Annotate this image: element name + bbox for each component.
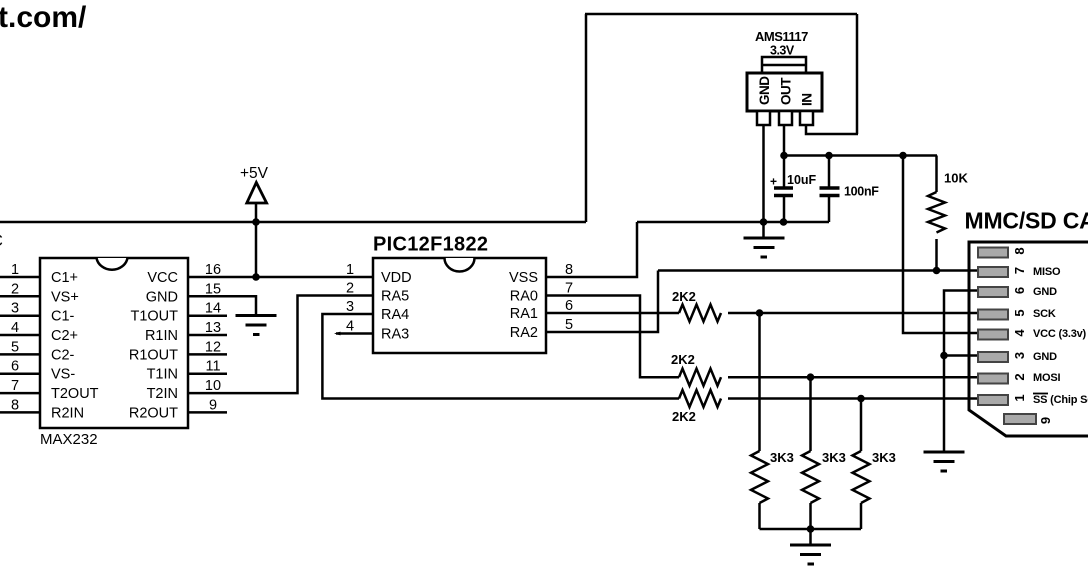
svg-text:GND: GND: [146, 289, 178, 305]
MAX232 left pin numbers: [11, 262, 19, 413]
svg-text:T2IN: T2IN: [147, 386, 178, 402]
wire MAX232 pin 7: [0, 392, 40, 395]
wire SD GND pins riser: [944, 291, 978, 453]
svg-text:13: 13: [205, 320, 221, 336]
svg-text:1: 1: [11, 262, 19, 278]
AMS1117 pin boxes: [757, 111, 770, 125]
junction dot MISO/10K: [933, 267, 941, 275]
junction dot VDD line: [252, 273, 260, 281]
svg-text:MAX232: MAX232: [40, 431, 98, 448]
wire riser left of AMS loop: [585, 14, 588, 222]
svg-text:IN: IN: [800, 94, 815, 107]
svg-text:MOSI: MOSI: [1033, 372, 1060, 384]
svg-text:C2-: C2-: [51, 347, 75, 363]
junction dot gnd rail AMS: [760, 218, 768, 226]
PIC right pin numbers: [565, 262, 573, 333]
svg-text:GND: GND: [1033, 286, 1057, 298]
svg-text:SS (Chip Select): SS (Chip Select): [1033, 394, 1088, 406]
svg-text:VCC: VCC: [147, 270, 178, 286]
svg-text:2: 2: [11, 281, 19, 297]
svg-text:RA1: RA1: [510, 306, 538, 322]
wire MAX232 pin 1: [0, 276, 40, 279]
svg-text:VSS: VSS: [509, 270, 538, 286]
svg-text:OUT: OUT: [779, 77, 794, 105]
svg-text:RA2: RA2: [510, 325, 538, 341]
svg-text:3K3: 3K3: [872, 450, 896, 465]
ground symbol at MAX232 GND: [236, 316, 277, 335]
PIC RA0 pin7 wire to MOSI net: [546, 296, 679, 378]
svg-text:10uF: 10uF: [787, 173, 817, 187]
svg-text:AMS1117: AMS1117: [755, 29, 808, 44]
MAX232 U1 body: [40, 258, 188, 428]
svg-text:VS-: VS-: [51, 367, 75, 383]
svg-text:3: 3: [11, 301, 19, 317]
SD pin boxes: [978, 248, 1036, 425]
wire MAX232 pin 5: [0, 353, 40, 356]
svg-text:14: 14: [205, 301, 221, 317]
wire MAX232 pin 12 stub: [188, 353, 227, 356]
svg-text:6: 6: [565, 298, 573, 314]
svg-text:3.3V: 3.3V: [770, 44, 795, 58]
+5V rail wire: [0, 221, 586, 224]
svg-text:C1+: C1+: [51, 270, 78, 286]
resistor R6 3K3: [860, 399, 863, 452]
wire joining 3K3 bottoms: [760, 528, 862, 531]
svg-text:1: 1: [346, 262, 354, 278]
svg-text:2K2: 2K2: [672, 289, 696, 304]
svg-text:3: 3: [1012, 352, 1027, 359]
svg-text:8: 8: [1012, 247, 1027, 254]
svg-text:PIC12F1822: PIC12F1822: [373, 234, 488, 256]
svg-text:RA0: RA0: [510, 289, 538, 305]
wire MAX232 pin 6: [0, 372, 40, 375]
SD connector outline: [969, 242, 1088, 436]
svg-text:7: 7: [565, 281, 573, 297]
junction dot SS/3K3: [857, 395, 865, 403]
ground symbol SD: [924, 452, 965, 471]
wire MAX232 pin 2: [0, 295, 40, 298]
svg-text:5: 5: [565, 317, 573, 333]
svg-text:MMC/SD CARD: MMC/SD CARD: [965, 208, 1088, 234]
svg-text:8: 8: [11, 397, 19, 413]
svg-text:3K3: 3K3: [770, 450, 794, 465]
svg-text:11: 11: [205, 359, 220, 375]
wire AMS GND pin to ground rail: [762, 125, 765, 222]
svg-text:10: 10: [205, 378, 221, 394]
PIC left pin labels: [381, 270, 412, 343]
svg-text:15: 15: [205, 281, 221, 297]
PIC RA3 pin4 stub: [336, 332, 373, 335]
svg-text:2: 2: [346, 281, 354, 297]
svg-text:T2OUT: T2OUT: [51, 386, 99, 402]
junction dot VCC3.3 riser: [899, 152, 907, 160]
wire GND pin15 to ground: [188, 296, 256, 315]
AMS1117 tab: [762, 57, 806, 73]
svg-text:SCK: SCK: [1033, 308, 1056, 320]
junction dot +5V rail: [252, 218, 260, 226]
junction dot gnd rail 10uF: [780, 218, 788, 226]
svg-text:3: 3: [346, 299, 354, 315]
ground symbol bottom: [790, 545, 831, 564]
ground rail right: [637, 221, 829, 224]
wire MAX232 pin 13 stub: [188, 334, 227, 337]
svg-text:T1IN: T1IN: [147, 367, 178, 383]
svg-text:+5V: +5V: [240, 165, 269, 182]
svg-text:6: 6: [11, 359, 19, 375]
svg-text:16: 16: [205, 262, 221, 278]
MAX232 right pin labels: [129, 270, 178, 421]
svg-text:4: 4: [1012, 329, 1027, 337]
wire MAX232 pin 9 stub: [188, 411, 227, 414]
svg-text:7: 7: [1012, 267, 1027, 274]
wire VCC pin16 to PIC VDD: [188, 276, 373, 279]
svg-text:4: 4: [11, 320, 19, 336]
SCK net wire: [728, 312, 978, 315]
resistor R5 3K3: [809, 377, 812, 451]
svg-text:RA5: RA5: [381, 289, 409, 305]
junction dot 3K3 bottoms: [807, 525, 815, 533]
svg-text:R2OUT: R2OUT: [129, 405, 178, 421]
wire AMS OUT pin to 3.3V node: [783, 125, 786, 156]
ground symbol below AMS: [762, 222, 765, 238]
svg-text:T1OUT: T1OUT: [130, 309, 178, 325]
MAX232 right pin numbers: [205, 262, 221, 413]
svg-text:RA4: RA4: [381, 307, 409, 323]
svg-text:9: 9: [209, 397, 217, 413]
svg-text:5: 5: [1012, 309, 1027, 316]
svg-text:C1-: C1-: [51, 309, 75, 325]
svg-text:t.com/: t.com/: [0, 1, 87, 34]
svg-text:100nF: 100nF: [844, 185, 879, 199]
junction dot OUT/10uF: [780, 152, 788, 160]
SD pin labels: [1033, 266, 1088, 406]
svg-text:+: +: [770, 175, 777, 189]
MOSI net wire: [728, 376, 978, 379]
svg-text:2K2: 2K2: [672, 409, 696, 424]
svg-text:5: 5: [11, 339, 19, 355]
svg-text:12: 12: [205, 339, 221, 355]
svg-text:3K3: 3K3: [822, 450, 846, 465]
MAX232 left pin labels: [51, 270, 99, 421]
capacitor C1 10uF: [783, 156, 786, 187]
svg-text:RA3: RA3: [381, 327, 409, 343]
svg-text:6: 6: [1012, 287, 1027, 294]
wire MAX232 pin 8: [0, 411, 40, 414]
PIC RA2 pin5 wire to MISO riser: [546, 271, 658, 333]
junction dot SD gnd: [940, 352, 948, 360]
svg-text:MISO: MISO: [1033, 266, 1061, 278]
svg-text:2K2: 2K2: [671, 352, 695, 367]
svg-text:C: C: [0, 232, 3, 250]
svg-text:10K: 10K: [944, 171, 968, 186]
junction dot 100nF top: [825, 152, 833, 160]
wire to SD pin3: [944, 354, 978, 357]
SS overline: [1033, 393, 1048, 395]
wire right drop of AMS loop: [856, 14, 859, 134]
resistor R4 3K3: [758, 313, 761, 451]
resistor R3 2K2 (SS): [679, 390, 721, 407]
PIC right pin labels: [509, 270, 538, 341]
svg-text:R1OUT: R1OUT: [129, 347, 178, 363]
resistor R1 2K2 (SCK): [679, 305, 721, 322]
svg-text:GND: GND: [1033, 351, 1057, 363]
wire MAX232 pin 11 stub: [188, 372, 227, 375]
svg-text:8: 8: [565, 262, 573, 278]
PIC left pin numbers: [346, 262, 354, 335]
AMS1117 pin names rotated: [757, 76, 815, 106]
3.3V node wire: [784, 154, 937, 157]
MISO net wire: [658, 269, 978, 272]
svg-text:1: 1: [1012, 394, 1027, 401]
junction dot MOSI/3K3: [807, 373, 815, 381]
resistor R7 10K: [935, 156, 938, 193]
resistor R2 2K2 (MOSI): [679, 369, 721, 386]
wire top of AMS loop: [585, 13, 857, 16]
SD pin numbers rotated: [1012, 247, 1053, 424]
svg-text:R2IN: R2IN: [51, 405, 84, 421]
svg-text:9: 9: [1038, 417, 1053, 424]
svg-text:VCC (3.3v): VCC (3.3v): [1033, 328, 1087, 340]
junction dot SCK/3K3: [756, 309, 764, 317]
svg-text:VS+: VS+: [51, 289, 79, 305]
PIC RA4 pin3 wire to SS net: [322, 314, 679, 399]
wire MAX232 pin 4: [0, 334, 40, 337]
svg-text:7: 7: [11, 378, 19, 394]
svg-text:C2+: C2+: [51, 328, 78, 344]
wire MAX232 pin 14 stub: [188, 314, 227, 317]
wire stem to bottom ground: [809, 529, 812, 545]
svg-text:VDD: VDD: [381, 270, 412, 286]
PIC VSS pin8 wire to ground rail: [546, 222, 637, 277]
svg-text:R1IN: R1IN: [145, 328, 178, 344]
wire into IN pin: [806, 124, 858, 134]
capacitor C2 100nF: [828, 156, 831, 187]
AMS1117 body: [747, 73, 822, 111]
wire MAX232 pin 3: [0, 314, 40, 317]
PIC12F1822 U2 body: [373, 258, 546, 353]
svg-text:GND: GND: [757, 76, 772, 105]
wire VCC 3.3 riser to SD pin4: [903, 156, 978, 334]
svg-text:2: 2: [1012, 373, 1027, 380]
PIC RA1 pin6 wire to 2K2: [546, 312, 679, 315]
SS net wire: [728, 397, 978, 400]
wire T2IN pin10 to PIC RA5: [188, 296, 373, 394]
svg-text:4: 4: [346, 319, 354, 335]
